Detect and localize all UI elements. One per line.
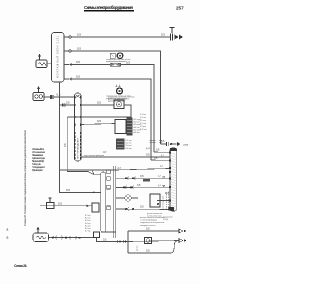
- caption above gauge G1: [106, 96, 132, 100]
- svg-text:0,5: 0,5: [146, 249, 150, 253]
- wire B-mid with connectors: [116, 186, 169, 188]
- svg-text:К-1 бел: К-1 бел: [140, 114, 146, 116]
- svg-text:выводом сигнала: выводом сигнала: [140, 225, 156, 227]
- svg-text:0,5: 0,5: [97, 119, 101, 123]
- icon square (diag connector): [110, 53, 115, 58]
- fuse box pin 2: [69, 50, 71, 52]
- emblem E2: [116, 85, 123, 95]
- caption under emblem E2: [108, 96, 135, 102]
- branch from vertical W5: [67, 117, 88, 172]
- fuse box pin 3: [69, 63, 72, 66]
- sensor wire with inline connectors: [49, 237, 97, 239]
- svg-text:0,5: 0,5: [137, 184, 141, 187]
- svg-text:К-3 син: К-3 син: [140, 117, 146, 119]
- svg-text:ЖГУТПРОВОДОВХХ: ЖГУТПРОВОДОВХХ: [78, 137, 80, 159]
- wire W2: [71, 51, 160, 144]
- wire sensor S2 to box K3: [40, 205, 92, 207]
- svg-text:к АКБ: к АКБ: [183, 143, 189, 146]
- svg-text:а: а: [7, 228, 9, 232]
- svg-text:257: 257: [176, 6, 184, 11]
- connector C3 dark block: [116, 139, 125, 150]
- svg-text:ЭСУД: ЭСУД: [163, 219, 169, 221]
- pin squares between A and B: [107, 170, 111, 210]
- caption under icons: [106, 59, 131, 63]
- injector box on mid wire: [145, 238, 152, 244]
- svg-text:0,5: 0,5: [77, 47, 81, 51]
- triangle symbols near pins: [163, 177, 165, 179]
- wire W6 right of strip: [81, 104, 114, 106]
- header title: [84, 5, 134, 10]
- header rule: [84, 10, 134, 12]
- svg-text:диагностики автомобиля: диагностики автомобиля: [108, 100, 125, 102]
- svg-text:управления двигателем: управления двигателем: [106, 98, 128, 100]
- svg-text:0,5: 0,5: [76, 60, 80, 64]
- svg-text:0,5: 0,5: [58, 201, 62, 205]
- Y junction: [88, 170, 101, 175]
- bus wire into ECU pin 160: [151, 159, 169, 161]
- fuse box pin 1: [69, 36, 71, 38]
- fuse box pin 4: [69, 78, 72, 81]
- svg-text:0,5: 0,5: [161, 140, 165, 143]
- svg-text:0,5: 0,5: [103, 238, 107, 241]
- loop bottom wire: [128, 241, 177, 253]
- svg-text:Схема 26. Типовая схема соедин: Схема 26. Типовая схема соединений систе…: [23, 130, 27, 226]
- svg-text:0,5: 0,5: [146, 227, 150, 231]
- svg-text:А-4 син: А-4 син: [134, 126, 140, 129]
- loop vertical left: [127, 231, 129, 253]
- wire relay K2 to connector strip X1: [44, 96, 75, 98]
- svg-text:А-2 бел: А-2 бел: [134, 121, 140, 124]
- wire relay K1 to fuse box: [47, 63, 52, 65]
- small labels near ECU pins: [158, 155, 164, 187]
- svg-text:0,5: 0,5: [161, 33, 165, 37]
- svg-text:Д-14: Д-14: [146, 148, 150, 150]
- bus pin labels column: [140, 114, 147, 131]
- wire to ECU pin D5: [60, 169, 170, 171]
- bottom loop left junction: [113, 241, 128, 243]
- svg-text:В-5 роз: В-5 роз: [85, 225, 91, 227]
- pin label column left of strip A: [85, 215, 91, 233]
- svg-text:Д-5: Д-5: [118, 168, 122, 170]
- strip B vertical pair: [112, 166, 114, 238]
- svg-text:В-6 гол: В-6 гол: [85, 228, 91, 230]
- svg-text:0,5: 0,5: [97, 101, 101, 105]
- svg-text:8. Датчик скорости: 8. Датчик скорости: [32, 169, 44, 172]
- svg-text:0,5: 0,5: [76, 75, 80, 79]
- wire W3: [71, 65, 154, 153]
- wire B3 bottom: [116, 208, 170, 211]
- svg-text:датчик: датчик: [137, 245, 139, 251]
- svg-text:0,5: 0,5: [126, 61, 130, 65]
- svg-text:В-2 син: В-2 син: [85, 218, 91, 220]
- ECU hatch: [171, 153, 176, 209]
- svg-text:0,5: 0,5: [146, 153, 150, 157]
- fuse box FB (tall rounded): [52, 33, 65, 83]
- connector pair on W6: [62, 104, 64, 107]
- oxygen sensor S3: [33, 227, 49, 241]
- connector C2 box: [115, 120, 126, 134]
- connector strip X1: [75, 93, 82, 161]
- legend text block: [32, 148, 46, 172]
- vertical feed wire from fuse box bottom: [60, 82, 95, 192]
- svg-text:0,5: 0,5: [156, 149, 160, 152]
- svg-text:В-4 сер: В-4 сер: [85, 223, 91, 225]
- svg-text:Д-5: Д-5: [103, 152, 107, 154]
- svg-text:К-5 зел: К-5 зел: [140, 120, 146, 122]
- wire W7 strip to sensor block: [81, 124, 115, 125]
- arrow into K3: [87, 204, 90, 207]
- relay K1: [36, 54, 48, 67]
- C2 pin label column: [134, 118, 142, 134]
- arrow mid: [179, 239, 183, 243]
- box bottom under strip A: [94, 232, 100, 238]
- dashed arrows left of ECU: [163, 191, 170, 210]
- svg-text:Д-1: Д-1: [161, 155, 164, 157]
- connector pair on K2 wire: [50, 95, 52, 99]
- svg-text:МОНТАЖНЫЙ БЛОК 2101: МОНТАЖНЫЙ БЛОК 2101: [57, 35, 60, 78]
- svg-text:Б-4 кор: Б-4 кор: [126, 148, 132, 150]
- svg-text:индикации бортовой системы: индикации бортовой системы: [106, 60, 127, 63]
- wire B2 with connectors: [116, 177, 170, 179]
- arrow top: [179, 229, 183, 233]
- box P1 under ECU: [150, 194, 160, 207]
- svg-text:В-1 бел: В-1 бел: [85, 215, 91, 217]
- loop top wire: [128, 230, 179, 232]
- C3 labels: [126, 140, 132, 150]
- svg-text:В-7 кор: В-7 кор: [85, 231, 91, 233]
- arrow connector at 144: [161, 140, 189, 147]
- svg-text:0,5: 0,5: [77, 33, 81, 37]
- bus wire into ECU pin 152: [154, 151, 169, 153]
- strip X1 bottom harness wire: [81, 156, 170, 158]
- svg-text:0,5: 0,5: [66, 188, 70, 192]
- strip A (left tall connector): [101, 172, 106, 232]
- svg-text:В-3 зел: В-3 зел: [85, 220, 91, 222]
- box K3 (left of strip A): [92, 203, 99, 212]
- connector C2 dark block: [127, 118, 133, 136]
- svg-text:жгут панели приборов: жгут панели приборов: [84, 155, 104, 157]
- svg-text:А-6 зел: А-6 зел: [134, 131, 140, 134]
- wire W6 (strip to gauge): [60, 104, 75, 106]
- svg-text:Д-9: Д-9: [158, 185, 161, 187]
- svg-text:сигнал датчика: сигнал датчика: [163, 195, 165, 209]
- svg-text:Д-7: Д-7: [158, 175, 161, 177]
- svg-text:Схема 26.: Схема 26.: [14, 264, 27, 268]
- connector X9 top right: [170, 28, 183, 41]
- A-B bottom join: [101, 231, 116, 233]
- svg-text:б: б: [7, 236, 9, 240]
- svg-text:0,5: 0,5: [140, 205, 144, 209]
- junction dot: [93, 192, 95, 194]
- svg-text:К-11 гол: К-11 гол: [140, 129, 147, 131]
- svg-text:Д-3: Д-3: [160, 166, 163, 168]
- relay K2: [33, 87, 44, 101]
- svg-text:К-7 сер: К-7 сер: [140, 123, 146, 125]
- motor M1 (hatched circle): [116, 197, 125, 199]
- wire W4: [71, 79, 151, 160]
- caption under box P1: [147, 213, 162, 218]
- small component on wire: [47, 203, 55, 209]
- icon emblem E1: [117, 53, 123, 59]
- harness label dark: [84, 155, 104, 157]
- svg-text:0,5: 0,5: [140, 174, 144, 178]
- svg-text:К-9 роз: К-9 роз: [140, 126, 146, 128]
- ECU connector strip: [170, 148, 177, 211]
- ECU bottom caption: [163, 217, 173, 222]
- ECU pin nubs: [169, 151, 175, 210]
- gauge G1 (box with emblem): [114, 100, 124, 109]
- svg-text:0,5: 0,5: [66, 101, 70, 105]
- loop mid wire: [128, 241, 179, 242]
- svg-text:Схемы электрооборудования: Схемы электрооборудования: [84, 5, 134, 10]
- bus tick marks: [150, 141, 162, 143]
- svg-text:0,5: 0,5: [63, 143, 67, 147]
- wire into strip A: [94, 191, 101, 193]
- bottom middle text block: [140, 217, 165, 227]
- dark text near 180: [143, 179, 150, 182]
- fuse F1 on wire W3: [110, 63, 121, 66]
- wire W1 top: [71, 36, 170, 38]
- X1 pin nubs: [74, 96, 82, 160]
- svg-text:0,5: 0,5: [57, 93, 61, 97]
- wire U-return from gauge G1: [67, 105, 131, 117]
